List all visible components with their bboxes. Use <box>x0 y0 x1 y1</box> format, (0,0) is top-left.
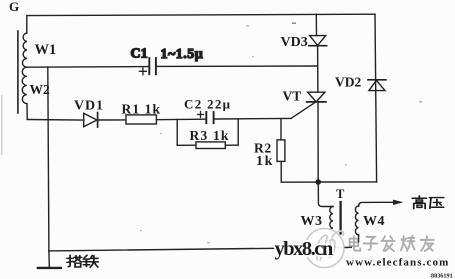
svg-text:C2 22μ: C2 22μ <box>184 97 231 112</box>
svg-text:1~1.5μ: 1~1.5μ <box>161 47 204 62</box>
svg-text:W4: W4 <box>363 214 385 229</box>
capacitor C1 <box>149 58 156 74</box>
chassis ground symbol <box>48 251 50 268</box>
wire junction down to W3 <box>318 182 333 207</box>
diode VD3 <box>310 36 326 46</box>
arrowhead <box>393 200 403 205</box>
wire junction to right bus <box>318 181 376 183</box>
winding W4 (transformer secondary) <box>355 206 358 247</box>
transformer T core <box>339 202 341 234</box>
svg-text:ybx8.cn: ybx8.cn <box>275 238 334 260</box>
wire main vertical (top bus to VD3) <box>315 14 317 35</box>
label chassis ground (da tie) <box>67 255 98 267</box>
svg-text:C1: C1 <box>131 47 148 62</box>
wire top bus <box>27 14 375 33</box>
winding W3 (transformer primary) <box>330 207 333 249</box>
wire right vertical bus <box>375 14 377 182</box>
R2 bottom lead to junction <box>281 161 318 182</box>
wire VD3 to VT anode <box>317 46 319 92</box>
svg-text:VD3: VD3 <box>281 35 308 50</box>
capacitor C2 <box>206 112 213 123</box>
wire bottom chassis bus <box>49 247 359 251</box>
R3 branch left leg <box>177 119 196 145</box>
svg-text:www.elecfans.com: www.elecfans.com <box>346 257 449 269</box>
svg-text:R3 1k: R3 1k <box>190 128 230 143</box>
diode VD1 <box>84 113 97 126</box>
wire R1 to C2 <box>156 118 205 121</box>
scan noise specks <box>1 23 422 244</box>
C1 polarity plus <box>140 68 147 75</box>
svg-text:W2: W2 <box>30 82 51 97</box>
wire bus dash visible through watermark <box>345 246 353 248</box>
wire W4 bottom stub <box>358 235 360 243</box>
resistor R2 branch top lead <box>280 119 282 140</box>
thyristor VT <box>308 92 325 102</box>
svg-text:VD2: VD2 <box>335 75 361 90</box>
thyristor VT gate wire <box>291 103 315 119</box>
C2 polarity plus <box>198 112 204 118</box>
resistor R3 <box>196 142 225 149</box>
winding W1 <box>22 33 26 67</box>
watermark elecfans chinese text (dian zi fa shao you) <box>350 236 434 251</box>
svg-text:8836191: 8836191 <box>431 272 453 279</box>
resistor R1 <box>126 115 156 124</box>
svg-text:VD1: VD1 <box>74 99 104 114</box>
generator core bar <box>17 31 19 113</box>
svg-text:G: G <box>9 0 19 14</box>
junction node dot <box>315 179 321 185</box>
svg-text:W1: W1 <box>35 42 57 58</box>
diode VD2 <box>369 80 385 90</box>
label high-voltage (gao ya) <box>412 196 443 209</box>
svg-text:T: T <box>336 187 345 201</box>
resistor R2 <box>277 140 285 162</box>
wire VT cathode to junction <box>317 102 319 182</box>
wire C2 to gate bend <box>214 117 291 120</box>
wire W2 bottom to VD1 <box>27 119 84 122</box>
wire W1-W2 tap to C1 <box>27 66 149 69</box>
wire C1 to VD3 branch <box>157 65 317 67</box>
svg-text:VT: VT <box>283 89 302 104</box>
wire left branch down to chassis bus <box>48 67 49 251</box>
wire VD1 to R1 <box>98 119 126 121</box>
wire high-voltage output with arrow <box>359 202 394 206</box>
watermark elecfans logo circle <box>305 229 344 268</box>
svg-text:R1 1k: R1 1k <box>122 102 162 117</box>
winding W2 <box>22 67 27 119</box>
R3 branch right leg <box>225 119 238 145</box>
svg-text:1k: 1k <box>256 154 274 169</box>
svg-text:W3: W3 <box>301 214 323 229</box>
